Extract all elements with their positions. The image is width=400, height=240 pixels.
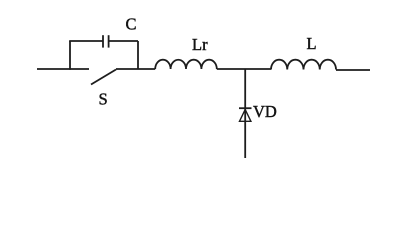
wire top branch left xyxy=(69,40,103,42)
wire right main segment xyxy=(336,69,370,71)
wire capacitor branch right vertical xyxy=(137,41,139,70)
wire between Lr and L xyxy=(217,68,271,70)
svg-text:L: L xyxy=(307,34,317,53)
diode VD triangle xyxy=(240,110,251,122)
wire middle main segment xyxy=(116,68,155,70)
inductor L xyxy=(271,60,336,70)
capacitor C plates xyxy=(103,35,109,47)
svg-text:C: C xyxy=(126,15,137,34)
wire left main segment xyxy=(37,68,89,70)
wire capacitor branch left vertical xyxy=(69,41,71,70)
svg-text:S: S xyxy=(99,90,108,109)
svg-text:VD: VD xyxy=(253,102,277,121)
switch S blade xyxy=(91,70,116,85)
wire top branch right xyxy=(109,40,138,42)
wire diode branch vertical xyxy=(244,69,246,158)
inductor Lr xyxy=(155,60,217,69)
svg-text:Lr: Lr xyxy=(192,35,208,54)
diode VD cathode bar xyxy=(239,107,252,109)
